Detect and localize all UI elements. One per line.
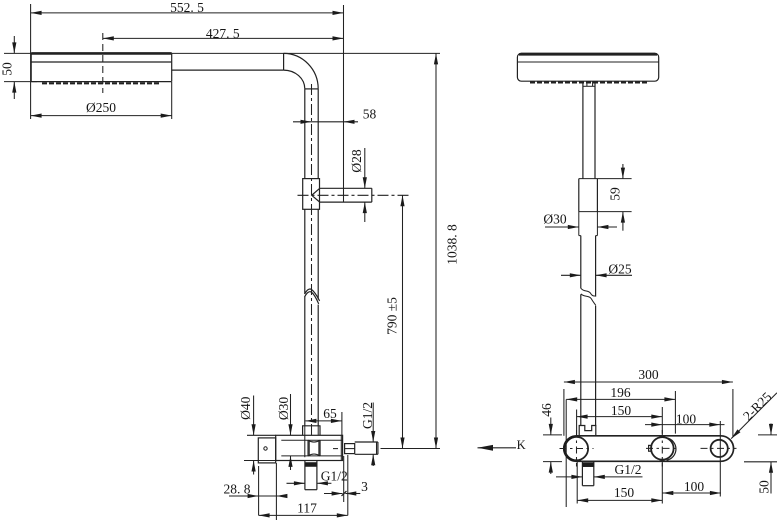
leader 2-R25 <box>731 393 777 439</box>
dim 65 left extension (pipe line through body) <box>304 435 306 457</box>
valve cartridge barrel <box>308 440 320 456</box>
svg-text:150: 150 <box>614 485 635 500</box>
svg-text:552. 5: 552. 5 <box>170 0 204 15</box>
stub thread band (dark) <box>305 463 317 467</box>
dimension 46 <box>550 418 552 435</box>
hole 3 center cross <box>701 447 737 449</box>
mixer bar (stadium outline) <box>564 436 734 462</box>
view arrow K <box>478 447 517 449</box>
riser pipe upper right line <box>317 89 319 179</box>
valve inlet nut <box>303 426 320 436</box>
svg-text:300: 300 <box>638 367 659 382</box>
svg-text:1038. 8: 1038. 8 <box>444 224 459 265</box>
dimension 300 <box>564 381 733 383</box>
valve body outline <box>276 435 343 460</box>
dimension 790 plus-minus 5 <box>402 195 404 448</box>
left view: dim 552.5 left extension line <box>30 4 32 119</box>
dimension diameter 28 <box>364 148 366 188</box>
valve bottom outlet stub <box>304 461 306 490</box>
svg-text:50: 50 <box>0 62 15 76</box>
bar stub thread band <box>582 463 593 467</box>
riser pipe lower left line with break gap <box>304 209 306 293</box>
dimension 50 (head thickness) <box>13 36 15 53</box>
dim 46 extension lines <box>543 434 562 436</box>
hole 3 circle <box>711 440 728 457</box>
slider sleeve bottom line + extension for 59 <box>579 211 632 213</box>
svg-text:196: 196 <box>610 385 631 400</box>
dimension diameter 250 <box>31 115 172 117</box>
wall plate <box>258 438 275 463</box>
hole 2 offset counterbore arc <box>667 438 676 460</box>
riser pipe upper left line <box>304 89 306 179</box>
dimension 552.5 <box>31 12 344 14</box>
outlet funnel inside tee <box>312 188 320 202</box>
shower arm bottom line <box>172 69 284 71</box>
svg-text:427. 5: 427. 5 <box>206 26 240 41</box>
svg-text:Ø30: Ø30 <box>543 212 566 227</box>
hand shower outlet end cap <box>371 188 373 202</box>
svg-text:Ø28: Ø28 <box>349 149 364 172</box>
dimension 59 <box>622 164 624 179</box>
right head top line (thick) <box>519 53 657 55</box>
bar bottom stub <box>581 461 583 485</box>
dimension 150 top <box>577 416 663 418</box>
svg-text:150: 150 <box>611 403 632 418</box>
head right edge extension for dia 250 <box>171 82 173 119</box>
svg-text:Ø30: Ø30 <box>276 397 291 420</box>
dimension G1/2 (bar stub) <box>556 476 582 478</box>
riser pipe centerline <box>311 84 313 437</box>
shower head bottom <box>31 81 172 83</box>
dim 300 extension lines <box>563 389 565 436</box>
dimension 117 <box>259 514 348 516</box>
dim 150 top extension lines <box>576 410 578 436</box>
dim 117 right extension line <box>347 455 349 515</box>
svg-text:46: 46 <box>539 403 554 417</box>
shower head centerline <box>102 33 104 93</box>
svg-text:G1/2: G1/2 <box>321 469 348 484</box>
hole 2 center cross <box>646 447 679 449</box>
hole 2 set screw tab <box>649 445 652 451</box>
pipe-to-bar tab <box>579 426 596 436</box>
valve outlet pipe <box>355 441 378 443</box>
slider sleeve top line + extension for 59 <box>579 178 632 180</box>
shower head nozzle band <box>42 82 159 84</box>
hole 1 center cross <box>560 448 594 450</box>
svg-text:Ø40: Ø40 <box>238 396 253 419</box>
dim 28.8 right extension line <box>275 463 277 520</box>
right head face line <box>517 61 658 63</box>
right pipe lower with break gap <box>580 236 582 289</box>
slider tee block <box>303 179 320 210</box>
shower head right edge <box>171 53 173 81</box>
svg-text:K: K <box>517 438 526 452</box>
dimension 58 <box>293 121 358 123</box>
svg-text:50: 50 <box>756 480 771 494</box>
svg-text:3: 3 <box>361 479 368 494</box>
svg-text:117: 117 <box>297 500 317 515</box>
shower arm top line / extension for 1038.8 <box>172 52 440 54</box>
dim 28.8 / 117 left extension line <box>258 466 260 515</box>
dimension 427.5 <box>103 37 344 39</box>
wall face extension line <box>565 400 567 508</box>
dim 50 top extension line <box>4 52 37 54</box>
elbow-riser joint tick <box>305 88 318 90</box>
right head nozzle band <box>530 81 647 83</box>
dimension G1/2 side outlet <box>372 403 374 443</box>
hand shower outlet top line <box>320 187 372 189</box>
dimension 196 <box>566 398 675 400</box>
valve body right edge inner line <box>340 435 342 460</box>
dimension 3 <box>324 493 343 495</box>
svg-text:G1/2: G1/2 <box>360 402 375 429</box>
shower head top (thick) <box>31 52 172 55</box>
bottom extension line at valve outlet centerline <box>381 448 441 450</box>
svg-text:100: 100 <box>676 412 697 427</box>
shower head left edge <box>30 53 32 81</box>
arm-elbow joint tick <box>283 53 285 70</box>
riser pipe lower right line with break gap <box>317 209 319 299</box>
hole 1 circle <box>565 437 588 460</box>
hole 2 circle <box>651 437 674 460</box>
dimension diameter 25 <box>561 274 581 276</box>
svg-text:65: 65 <box>323 406 337 421</box>
valve body inner top line <box>281 439 342 441</box>
pipe lines through inlet nut <box>304 426 306 436</box>
hand shower outlet bottom line <box>320 201 372 203</box>
slider sleeve sides <box>578 179 580 212</box>
dimension 100 top <box>645 424 725 426</box>
slider sleeve skirt <box>578 212 580 236</box>
right pipe break symbol <box>581 288 596 296</box>
dim 552.5 right extension line <box>343 5 345 202</box>
svg-text:28. 8: 28. 8 <box>224 482 251 497</box>
bottom extension lines for hole dims <box>576 462 578 504</box>
dimension 150 bottom <box>577 499 662 501</box>
dia 40 bottom extension line <box>244 460 276 462</box>
dim 196 right extension line <box>674 391 676 434</box>
svg-text:100: 100 <box>684 479 705 494</box>
dim 50 bottom extension line <box>4 81 37 83</box>
svg-text:59: 59 <box>607 187 622 201</box>
elbow outer arc <box>284 53 319 89</box>
valve outlet fitting <box>345 444 355 454</box>
pipe break symbol <box>305 289 320 301</box>
dimension 1038.8 <box>435 53 437 448</box>
elbow inner arc <box>284 70 305 89</box>
dimension 100 bottom <box>662 492 721 494</box>
svg-text:790 ±5: 790 ±5 <box>384 297 399 335</box>
wall plate screw hole <box>264 447 267 450</box>
svg-text:Ø250: Ø250 <box>86 100 116 115</box>
dimension 50 <box>770 424 772 435</box>
dimension diameter 40 <box>253 396 255 436</box>
right head pipe joint <box>582 81 584 178</box>
outlet centerline <box>298 194 410 196</box>
dimension 65 <box>305 420 342 422</box>
right view shower head outline <box>517 53 658 81</box>
dia 40 top extension line <box>247 434 276 436</box>
dimension 28.8 <box>229 495 286 497</box>
svg-text:Ø25: Ø25 <box>608 262 631 277</box>
hole 1 crescent hatch (left rim) <box>564 437 573 461</box>
dim 50 extension lines <box>758 434 777 436</box>
svg-text:58: 58 <box>363 107 377 122</box>
dimension G1/2 bottom outlet <box>287 482 305 484</box>
valve centerline dash <box>333 448 338 450</box>
dim 65 right extension line <box>341 412 343 435</box>
dimension diameter 30 (sleeve) <box>545 226 579 228</box>
svg-text:G1/2: G1/2 <box>615 462 642 477</box>
shower head face line <box>31 61 171 63</box>
dimension diameter 30 (valve) <box>290 394 292 435</box>
dimension 3 extension line <box>343 456 345 502</box>
valve body inner bottom line <box>281 455 342 457</box>
